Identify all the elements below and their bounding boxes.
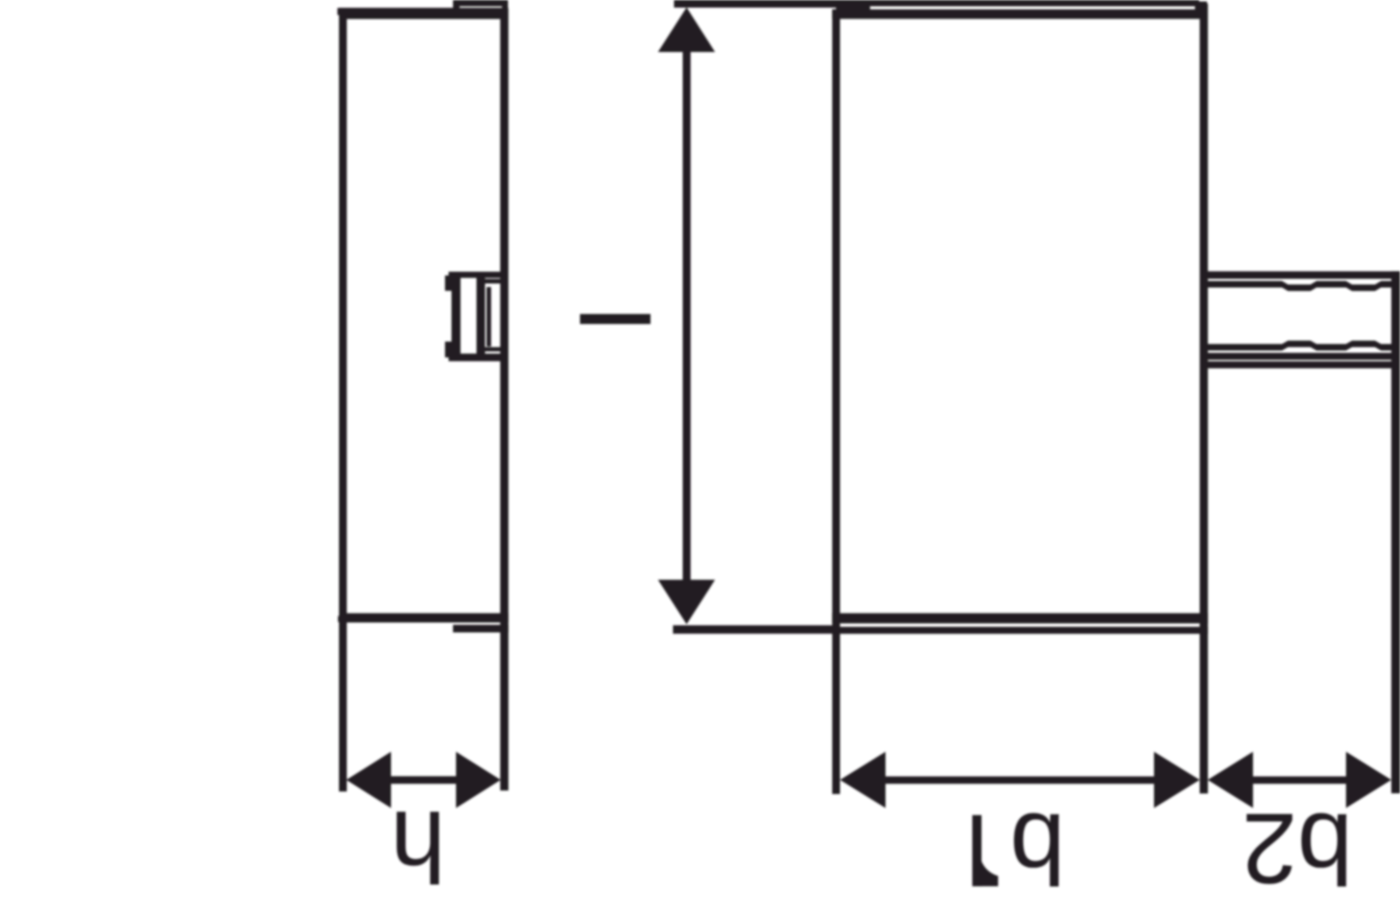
rail clip cross-section: bottom flange bar xyxy=(449,354,502,362)
side view: tab slot patch right xyxy=(502,0,508,9)
dimension h: shaft xyxy=(389,776,458,784)
front view: right edge vertical (shared b1/b2 extension) xyxy=(1200,4,1208,794)
clip right bracket: upper lip xyxy=(482,284,485,287)
dimension b2: shaft xyxy=(1251,776,1348,783)
dimension h: left arrowhead xyxy=(346,752,391,808)
side view: tab slot patch left xyxy=(453,0,460,9)
DIN rail: right end cap xyxy=(1394,272,1400,288)
svg-text:h: h xyxy=(390,790,446,900)
clip right bracket: vertical xyxy=(487,287,492,347)
clip right bracket: lower lip xyxy=(482,345,485,348)
DIN rail: line 1 (top) xyxy=(1204,271,1400,279)
right extension line (b2, at image edge) xyxy=(1391,271,1400,793)
rail clip cross-section: left column xyxy=(452,276,461,356)
front view: top edge xyxy=(832,9,1207,19)
dimension b1: right arrowhead xyxy=(1154,752,1200,808)
front view: bottom mounting slab xyxy=(849,0,1199,6)
rail clip cross-section: top flange bar xyxy=(449,272,502,278)
side view: lower second line (step) xyxy=(453,625,508,633)
DIN rail: line 2 with down-joggles xyxy=(1204,281,1400,291)
front view: left edge / b1 extension line xyxy=(832,10,840,795)
vertical dimension: top extension line xyxy=(674,0,870,8)
clip right bracket: lower arm xyxy=(482,347,502,351)
svg-text:b: b xyxy=(1010,792,1066,900)
dimension h: right arrowhead xyxy=(456,752,501,808)
label b1: glyph 1 stem (drawn flipped) xyxy=(972,815,981,886)
side view: left edge / h extension line xyxy=(339,8,347,792)
DIN rail: line 3 with up-joggles xyxy=(1204,341,1400,351)
vertical dimension: bottom arrowhead xyxy=(658,580,715,625)
dimension b1: shaft xyxy=(883,776,1156,783)
side view: top-left nub xyxy=(337,8,340,15)
rail clip cross-section: middle web bar xyxy=(477,276,486,354)
dimension b2: right arrowhead xyxy=(1346,752,1391,808)
front view: bottom thin line xyxy=(832,627,1208,634)
side view: bottom mounting tab xyxy=(453,0,508,6)
side view: top edge xyxy=(339,8,508,19)
side view: right edge / h extension line xyxy=(500,8,508,791)
front view: slab merge patch left xyxy=(836,0,870,10)
dimension b2: left arrowhead xyxy=(1208,752,1253,808)
svg-text:b2: b2 xyxy=(1242,792,1353,900)
side view: bottom-left nub xyxy=(338,616,341,622)
rail clip cross-section: lower-left tab xyxy=(445,342,457,358)
front view: bottom edge thick band xyxy=(832,613,1208,623)
DIN rail: line 4 (bottom) xyxy=(1204,353,1400,360)
front view: slab corner patch right xyxy=(1195,2,1207,11)
vertical dimension label: dash xyxy=(580,314,651,324)
vertical dimension: top arrowhead xyxy=(658,7,715,52)
vertical dimension: shaft xyxy=(683,49,691,583)
dimension b1: left arrowhead xyxy=(840,752,886,808)
vertical dimension: bottom extension line xyxy=(673,625,833,633)
side view: bottom edge of body xyxy=(339,613,508,622)
lower right body: top edge xyxy=(1201,361,1400,368)
rail clip cross-section: upper-left tab xyxy=(445,276,457,291)
clip right bracket: upper arm xyxy=(482,279,502,284)
label b1: glyph 1 flag (drawn flipped) xyxy=(981,860,998,886)
